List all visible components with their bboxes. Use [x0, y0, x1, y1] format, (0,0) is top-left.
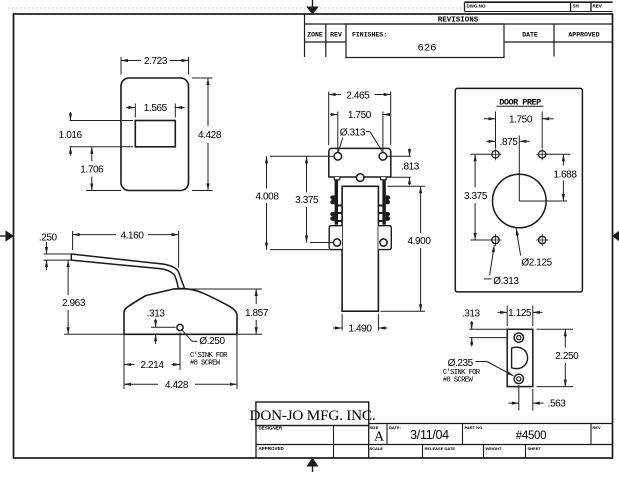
svg-text:REV: REV — [593, 425, 602, 430]
svg-text:1.706: 1.706 — [80, 165, 104, 176]
svg-text:DATE: DATE — [522, 32, 538, 39]
svg-text:1.565: 1.565 — [144, 103, 168, 114]
svg-text:Ø.313: Ø.313 — [493, 276, 519, 287]
svg-text:Ø.235: Ø.235 — [448, 358, 474, 369]
svg-text:APPROVED: APPROVED — [568, 32, 599, 39]
svg-text:APPROVED: APPROVED — [259, 446, 285, 451]
svg-text:REV: REV — [593, 4, 602, 9]
svg-text:SH: SH — [573, 4, 579, 9]
svg-text:#8 SCREW: #8 SCREW — [443, 376, 474, 384]
svg-text:ZONE: ZONE — [307, 32, 323, 39]
svg-text:1.016: 1.016 — [59, 130, 83, 141]
svg-text:1.490: 1.490 — [348, 324, 372, 335]
svg-text:1.750: 1.750 — [348, 110, 372, 121]
svg-text:4.900: 4.900 — [407, 236, 431, 247]
svg-text:1.125: 1.125 — [508, 308, 532, 319]
svg-text:4.008: 4.008 — [255, 192, 279, 203]
svg-text:#4500: #4500 — [516, 430, 546, 442]
svg-text:3.375: 3.375 — [464, 191, 488, 202]
svg-text:2.214: 2.214 — [140, 360, 164, 371]
svg-text:DWG NO: DWG NO — [467, 4, 486, 9]
svg-text:SCALE: SCALE — [370, 446, 384, 451]
svg-text:.313: .313 — [462, 309, 481, 320]
svg-text:DATE:: DATE: — [389, 425, 401, 430]
svg-text:3.375: 3.375 — [295, 195, 319, 206]
svg-text:Ø.313: Ø.313 — [340, 128, 366, 139]
svg-text:2.250: 2.250 — [555, 351, 579, 362]
svg-text:REVISIONS: REVISIONS — [438, 17, 479, 25]
svg-text:DON-JO MFG. INC.: DON-JO MFG. INC. — [250, 407, 376, 424]
svg-text:FINISHES:: FINISHES: — [352, 32, 387, 39]
svg-text:SHEET: SHEET — [528, 446, 542, 451]
svg-text:.250: .250 — [39, 233, 58, 244]
svg-text:Ø.250: Ø.250 — [199, 336, 225, 347]
svg-text:1.857: 1.857 — [245, 308, 269, 319]
svg-text:4.428: 4.428 — [165, 380, 189, 391]
svg-text:.875: .875 — [500, 137, 519, 148]
svg-text:#8 SCREW: #8 SCREW — [190, 359, 221, 367]
svg-text:1.750: 1.750 — [509, 115, 533, 126]
svg-text:.813: .813 — [401, 162, 420, 173]
svg-text:1.688: 1.688 — [553, 170, 577, 181]
svg-text:DESIGNER: DESIGNER — [259, 426, 283, 431]
svg-text:3/11/04: 3/11/04 — [410, 428, 449, 442]
svg-text:REV: REV — [330, 32, 342, 39]
svg-text:4.428: 4.428 — [198, 130, 222, 141]
svg-text:.313: .313 — [147, 309, 166, 320]
svg-text:626: 626 — [418, 43, 437, 55]
svg-text:2.723: 2.723 — [144, 56, 168, 67]
svg-text:2.963: 2.963 — [62, 298, 86, 309]
svg-text:RELEASE DATE: RELEASE DATE — [425, 446, 456, 451]
svg-text:WEIGHT: WEIGHT — [486, 446, 503, 451]
svg-text:4.160: 4.160 — [120, 231, 144, 242]
svg-text:Ø2.125: Ø2.125 — [521, 258, 552, 269]
svg-text:.563: .563 — [548, 399, 567, 410]
svg-text:A: A — [374, 430, 385, 445]
svg-text:2.465: 2.465 — [346, 91, 370, 102]
svg-text:PART NO.: PART NO. — [465, 425, 484, 430]
